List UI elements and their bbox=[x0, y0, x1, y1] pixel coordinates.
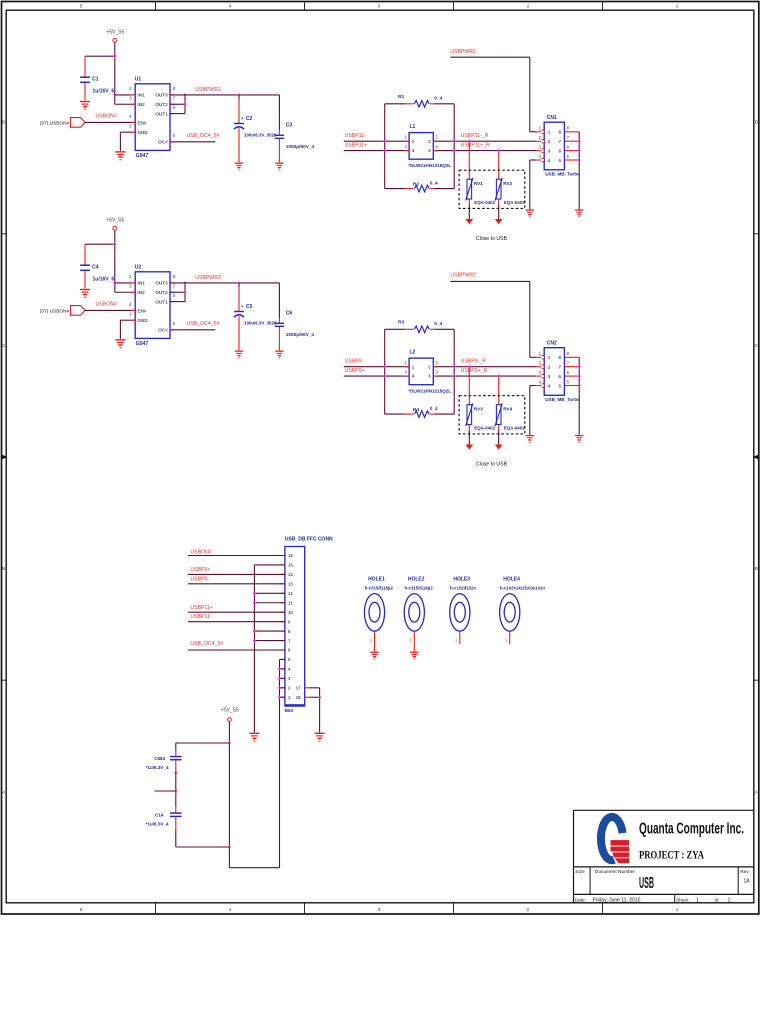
inductor L2 common-mode choke bbox=[409, 358, 433, 385]
node junction bbox=[253, 601, 256, 604]
svg-text:5: 5 bbox=[558, 383, 561, 388]
resistor R1 bbox=[385, 103, 406, 105]
svg-text:*DLW21HN1215Q2L: *DLW21HN1215Q2L bbox=[408, 163, 451, 168]
ground bbox=[575, 209, 583, 210]
svg-text:Sheet: Sheet bbox=[676, 897, 689, 903]
svg-text:3: 3 bbox=[548, 148, 551, 153]
svg-text:B: B bbox=[2, 566, 5, 571]
svg-text:6: 6 bbox=[173, 293, 176, 298]
svg-text:USBON#: USBON# bbox=[190, 550, 211, 556]
svg-text:GND: GND bbox=[137, 318, 148, 323]
node junction bbox=[278, 686, 281, 689]
node junction bbox=[228, 845, 231, 848]
red pin stubs bbox=[405, 140, 410, 142]
wire IN2 bbox=[115, 103, 135, 105]
svg-text:8: 8 bbox=[558, 130, 561, 135]
svg-text:USBP9-: USBP9- bbox=[345, 358, 364, 364]
capacitor C2 polarized bbox=[238, 95, 240, 99]
node junction bbox=[578, 365, 581, 368]
svg-text:RV4: RV4 bbox=[503, 407, 512, 412]
svg-text:*DLW21HN1215Q2L: *DLW21HN1215Q2L bbox=[408, 389, 451, 394]
svg-text:1: 1 bbox=[370, 638, 372, 642]
node junction bbox=[278, 677, 281, 680]
svg-text:10: 10 bbox=[288, 610, 293, 615]
node junction bbox=[578, 140, 581, 143]
svg-text:2: 2 bbox=[129, 274, 132, 279]
wire USBP11+ to pin 10 bbox=[188, 611, 285, 613]
svg-text:RV1: RV1 bbox=[474, 181, 483, 186]
svg-text:1: 1 bbox=[548, 130, 551, 135]
svg-text:USBON#: USBON# bbox=[96, 302, 117, 308]
capacitor C4 bbox=[84, 244, 86, 265]
svg-text:EQA-0402: EQA-0402 bbox=[474, 426, 495, 431]
svg-text:1u/16V_6: 1u/16V_6 bbox=[93, 277, 115, 283]
svg-text:EQA-0402: EQA-0402 bbox=[504, 426, 525, 431]
svg-text:11: 11 bbox=[288, 600, 293, 605]
svg-text:USBPWR1: USBPWR1 bbox=[450, 49, 476, 55]
svg-text:USB_OC4_5#: USB_OC4_5# bbox=[187, 321, 220, 327]
input port (37) USBON# (U2) bbox=[71, 306, 86, 316]
pin sockets and stubs bbox=[536, 356, 541, 358]
svg-text:Rev: Rev bbox=[740, 869, 749, 875]
title block bbox=[574, 809, 754, 811]
ground bbox=[526, 435, 534, 436]
svg-text:HOLE4: HOLE4 bbox=[503, 576, 520, 582]
svg-text:h-c102x141d102x141n: h-c102x141d102x141n bbox=[500, 586, 546, 591]
svg-text:L2: L2 bbox=[410, 350, 416, 356]
svg-text:USBP9+_R: USBP9+_R bbox=[461, 368, 488, 374]
svg-text:GND: GND bbox=[137, 130, 148, 135]
varistor RV1 bbox=[468, 141, 470, 179]
node junction bbox=[253, 629, 256, 632]
svg-text:1A: 1A bbox=[743, 878, 750, 884]
svg-text:17: 17 bbox=[296, 686, 301, 691]
resistor R3 bbox=[385, 328, 406, 330]
wire net USBPWR1 bbox=[450, 56, 529, 58]
svg-text:RV3: RV3 bbox=[474, 407, 483, 412]
svg-text:5: 5 bbox=[558, 158, 561, 163]
svg-text:1: 1 bbox=[728, 897, 731, 903]
op-amp U1 power switch G547 bbox=[135, 84, 170, 151]
svg-text:G547: G547 bbox=[136, 153, 149, 159]
node junction bbox=[497, 149, 500, 152]
node junction bbox=[383, 140, 386, 143]
svg-text:18: 18 bbox=[296, 695, 301, 700]
svg-text:8: 8 bbox=[558, 355, 561, 360]
ground bbox=[526, 209, 534, 210]
svg-text:5: 5 bbox=[173, 321, 176, 326]
wire pins 5-8 tie bbox=[578, 357, 580, 434]
resistor R4 bbox=[385, 413, 406, 415]
svg-text:G547: G547 bbox=[136, 341, 149, 347]
wire pins 17,18 to ground bbox=[309, 687, 319, 689]
node junction bbox=[578, 384, 581, 387]
svg-text:OC#: OC# bbox=[158, 140, 168, 145]
svg-text:Close to USB: Close to USB bbox=[476, 236, 508, 242]
svg-text:14: 14 bbox=[288, 572, 293, 577]
capacitor C1 bbox=[84, 56, 86, 77]
node junction bbox=[237, 93, 240, 96]
svg-text:EN#: EN# bbox=[137, 309, 147, 314]
svg-text:100u/6.3V_3528: 100u/6.3V_3528 bbox=[244, 320, 277, 325]
inductor L1 common-mode choke bbox=[409, 133, 433, 160]
wire pin4 to ground bbox=[530, 385, 536, 387]
wire USBP11- to pin 9 bbox=[188, 621, 285, 623]
svg-text:EN#: EN# bbox=[137, 121, 147, 126]
svg-text:1: 1 bbox=[410, 638, 412, 642]
svg-text:*1u/6.3V_4: *1u/6.3V_4 bbox=[146, 765, 169, 770]
svg-text:3: 3 bbox=[129, 284, 132, 289]
svg-text:8: 8 bbox=[173, 274, 176, 279]
node junction bbox=[383, 365, 386, 368]
wire pin1 bbox=[530, 356, 536, 358]
svg-text:C3: C3 bbox=[286, 123, 293, 129]
node junction bbox=[237, 281, 240, 284]
svg-text:EQA-0402: EQA-0402 bbox=[504, 200, 525, 205]
wire OUT2/OUT1 tie bbox=[184, 283, 186, 302]
svg-text:EQA-0402: EQA-0402 bbox=[474, 200, 495, 205]
wire IN2 bbox=[115, 291, 135, 293]
svg-text:OUT2: OUT2 bbox=[155, 102, 168, 107]
capacitor C684 bbox=[175, 743, 177, 751]
wire net USBPWR2 bbox=[450, 280, 529, 282]
svg-text:HOLE3: HOLE3 bbox=[453, 576, 470, 582]
svg-text:CN2: CN2 bbox=[547, 340, 557, 346]
svg-text:+: + bbox=[241, 116, 244, 121]
connector CN2 USB_MB_Turbo bbox=[544, 348, 564, 396]
wire bbox=[175, 773, 177, 807]
svg-text:0_4: 0_4 bbox=[434, 96, 442, 102]
red pin stubs bbox=[280, 555, 285, 557]
ground bbox=[115, 339, 125, 340]
svg-text:+5V_S5: +5V_S5 bbox=[221, 707, 239, 713]
svg-text:0_4: 0_4 bbox=[430, 181, 438, 187]
svg-text:+5V_S5: +5V_S5 bbox=[106, 29, 124, 35]
svg-text:5: 5 bbox=[173, 133, 176, 138]
svg-text:1: 1 bbox=[129, 124, 132, 129]
node junction bbox=[468, 140, 471, 143]
wire bbox=[85, 55, 115, 57]
svg-text:Friday, June 11, 2010: Friday, June 11, 2010 bbox=[593, 897, 641, 903]
wire EN# bbox=[85, 121, 135, 123]
svg-text:OUT1: OUT1 bbox=[155, 300, 168, 305]
resistor R2 bbox=[385, 188, 406, 190]
svg-text:B: B bbox=[755, 566, 758, 571]
svg-text:(37) USBON#: (37) USBON# bbox=[40, 308, 70, 314]
node junction bbox=[278, 667, 281, 670]
svg-text:13: 13 bbox=[288, 582, 293, 587]
svg-text:1000p/50V_4: 1000p/50V_4 bbox=[286, 144, 315, 149]
varistor RV3 bbox=[468, 367, 470, 405]
ground bbox=[235, 163, 243, 164]
svg-text:3: 3 bbox=[129, 96, 132, 101]
svg-text:C2: C2 bbox=[246, 116, 253, 122]
svg-text:HOLE1: HOLE1 bbox=[368, 576, 385, 582]
wire OC# bbox=[170, 141, 215, 143]
svg-text:of: of bbox=[714, 897, 719, 903]
svg-text:12: 12 bbox=[288, 591, 293, 596]
svg-text:PROJECT : ZYA: PROJECT : ZYA bbox=[639, 848, 704, 862]
svg-text:0_4: 0_4 bbox=[434, 321, 442, 327]
wire net USBP11+ bbox=[344, 150, 537, 152]
svg-text:USBON#: USBON# bbox=[96, 114, 117, 120]
wire pin1 bbox=[530, 131, 536, 133]
svg-text:USBPWR1: USBPWR1 bbox=[195, 87, 221, 93]
capacitor C14 bbox=[175, 806, 177, 813]
wire bbox=[114, 42, 116, 104]
svg-text:0_4: 0_4 bbox=[430, 406, 438, 412]
svg-text:HOLE2: HOLE2 bbox=[408, 576, 425, 582]
node junction bbox=[113, 55, 116, 58]
svg-text:4: 4 bbox=[129, 114, 132, 119]
svg-text:1: 1 bbox=[548, 355, 551, 360]
wire bbox=[85, 243, 115, 245]
svg-text:C684: C684 bbox=[154, 756, 165, 761]
svg-text:R4: R4 bbox=[413, 407, 419, 413]
node junction bbox=[318, 696, 321, 699]
svg-text:USBP9-_R: USBP9-_R bbox=[461, 358, 487, 364]
svg-text:C1: C1 bbox=[92, 76, 99, 82]
svg-text:Date:: Date: bbox=[575, 897, 586, 903]
svg-text:R1: R1 bbox=[398, 94, 404, 100]
svg-text:1000p/50V_4: 1000p/50V_4 bbox=[286, 332, 315, 337]
svg-text:USBP9-: USBP9- bbox=[190, 577, 209, 583]
wire bbox=[384, 104, 386, 189]
svg-text:7: 7 bbox=[558, 139, 561, 144]
wire bbox=[228, 722, 230, 868]
capacitor C3 bbox=[278, 95, 280, 130]
varistor RV2 bbox=[498, 151, 500, 180]
svg-text:OUT3: OUT3 bbox=[155, 93, 168, 98]
dashed keepout box bbox=[459, 396, 525, 434]
svg-text:(37) USBON#: (37) USBON# bbox=[40, 120, 70, 126]
input port (37) USBON# (U1) bbox=[71, 118, 86, 128]
svg-text:USB_MB_Turbo: USB_MB_Turbo bbox=[545, 172, 580, 177]
ground bbox=[575, 435, 583, 436]
svg-text:USBP11+: USBP11+ bbox=[345, 143, 368, 149]
connector CN1 USB_MB_Turbo bbox=[544, 122, 564, 170]
wire pin4 to ground bbox=[530, 159, 536, 161]
svg-text:CN1: CN1 bbox=[547, 115, 557, 121]
svg-text:2: 2 bbox=[129, 86, 132, 91]
ground bbox=[235, 351, 243, 352]
wire bbox=[453, 329, 455, 414]
wire bbox=[229, 867, 279, 869]
svg-text:6: 6 bbox=[558, 374, 561, 379]
svg-text:4: 4 bbox=[548, 383, 551, 388]
red pin stubs bbox=[131, 282, 135, 284]
svg-text:IN1: IN1 bbox=[137, 93, 145, 98]
wire IN1 bbox=[115, 282, 135, 284]
pin sockets and stubs bbox=[536, 131, 541, 133]
svg-text:USB_OC4_5#: USB_OC4_5# bbox=[187, 133, 220, 139]
svg-text:Size: Size bbox=[575, 869, 585, 875]
svg-text:USBPWR2: USBPWR2 bbox=[195, 275, 221, 281]
node junction bbox=[183, 93, 186, 96]
node junction bbox=[278, 696, 281, 699]
svg-text:OC#: OC# bbox=[158, 328, 168, 333]
svg-text:U1: U1 bbox=[135, 77, 142, 83]
svg-text:*1u/6.3V_4: *1u/6.3V_4 bbox=[146, 821, 169, 826]
node junction bbox=[453, 149, 456, 152]
node junction bbox=[383, 374, 386, 377]
svg-text:B63: B63 bbox=[285, 708, 294, 713]
svg-text:USBP11-: USBP11- bbox=[190, 614, 212, 620]
svg-text:Quanta Computer Inc.: Quanta Computer Inc. bbox=[639, 820, 744, 837]
svg-text:1: 1 bbox=[455, 638, 457, 642]
wire net USBPWR1 bbox=[170, 94, 279, 96]
op-amp U2 power switch G547 bbox=[135, 272, 170, 339]
svg-text:USBP11-_R: USBP11-_R bbox=[461, 133, 489, 139]
svg-text:OUT3: OUT3 bbox=[155, 281, 168, 286]
svg-text:USBP11-: USBP11- bbox=[345, 133, 367, 139]
node junction bbox=[453, 140, 456, 143]
svg-text:USBP9+: USBP9+ bbox=[345, 368, 365, 374]
svg-text:A: A bbox=[2, 790, 5, 795]
svg-text:USB: USB bbox=[639, 875, 654, 892]
wire IN1 bbox=[115, 94, 135, 96]
ground bbox=[275, 163, 283, 164]
wire bbox=[384, 329, 386, 414]
svg-text:3: 3 bbox=[548, 374, 551, 379]
wire net USBPWR2 bbox=[170, 282, 279, 284]
wire USBP9+ to pin 14 bbox=[188, 573, 285, 575]
svg-text:7: 7 bbox=[173, 284, 176, 289]
ground bbox=[370, 652, 378, 653]
svg-text:6: 6 bbox=[558, 148, 561, 153]
svg-text:+: + bbox=[241, 304, 244, 309]
node junction bbox=[453, 365, 456, 368]
svg-text:15: 15 bbox=[288, 563, 293, 568]
supply bus pins 5,4,3,2,1 bbox=[279, 659, 281, 867]
svg-text:1: 1 bbox=[129, 312, 132, 317]
svg-text:1: 1 bbox=[505, 638, 507, 642]
wire OUT2/OUT1 tie bbox=[184, 95, 186, 114]
wire EN# bbox=[85, 309, 135, 311]
svg-text:1: 1 bbox=[696, 897, 699, 903]
wire GND pin bbox=[120, 319, 135, 321]
ground bbox=[410, 652, 418, 653]
varistor RV4 bbox=[498, 376, 500, 405]
svg-text:RV2: RV2 bbox=[503, 181, 512, 186]
svg-text:USB_DB FFC CONN: USB_DB FFC CONN bbox=[285, 536, 333, 542]
svg-text:A: A bbox=[755, 790, 758, 795]
svg-text:100u/6.3V_3528: 100u/6.3V_3528 bbox=[244, 132, 277, 137]
svg-text:R2: R2 bbox=[413, 181, 419, 187]
svg-text:2: 2 bbox=[548, 365, 551, 370]
svg-text:h-c102d102n: h-c102d102n bbox=[450, 586, 476, 591]
svg-text:C4: C4 bbox=[92, 264, 99, 270]
node junction bbox=[497, 374, 500, 377]
wire USBP9- to pin 13 bbox=[188, 583, 285, 585]
svg-text:h-c315d118p2: h-c315d118p2 bbox=[405, 586, 434, 591]
wire net USBP11- bbox=[344, 140, 537, 142]
svg-text:Document Number: Document Number bbox=[595, 869, 636, 875]
svg-text:USB_OC4_5#: USB_OC4_5# bbox=[190, 641, 223, 647]
dashed keepout box bbox=[459, 170, 525, 208]
node junction bbox=[383, 149, 386, 152]
node junction bbox=[183, 103, 186, 106]
wire bbox=[176, 742, 230, 744]
svg-text:USBP9+: USBP9+ bbox=[190, 567, 210, 573]
svg-text:4: 4 bbox=[548, 158, 551, 163]
ground bbox=[465, 445, 473, 450]
red pin stubs bbox=[131, 94, 135, 96]
ground bbox=[249, 733, 259, 734]
wire USBON# to pin 16 bbox=[188, 555, 285, 557]
node junction bbox=[578, 149, 581, 152]
capacitor C6 bbox=[278, 283, 280, 318]
wire OC# bbox=[170, 329, 215, 331]
wire net USBP9- bbox=[344, 366, 537, 368]
wire bbox=[453, 104, 455, 189]
node junction bbox=[253, 592, 256, 595]
node junction bbox=[174, 771, 177, 774]
node junction bbox=[113, 281, 116, 284]
node junction bbox=[578, 158, 581, 161]
wire bbox=[176, 846, 230, 848]
node junction bbox=[253, 639, 256, 642]
wire pins 5-8 tie bbox=[578, 132, 580, 209]
svg-text:+5V_S5: +5V_S5 bbox=[106, 217, 124, 223]
ground bbox=[495, 219, 503, 224]
node junction bbox=[113, 93, 116, 96]
wire bbox=[114, 230, 116, 292]
svg-text:1u/16V_6: 1u/16V_6 bbox=[93, 89, 115, 95]
node junction bbox=[174, 789, 177, 792]
ground bbox=[80, 289, 90, 290]
node junction bbox=[468, 365, 471, 368]
svg-text:C5: C5 bbox=[246, 304, 253, 310]
node junction bbox=[113, 243, 116, 246]
node junction bbox=[183, 281, 186, 284]
red pin stubs bbox=[405, 366, 410, 368]
svg-text:2: 2 bbox=[548, 139, 551, 144]
svg-text:IN2: IN2 bbox=[137, 290, 145, 295]
ground bbox=[80, 101, 90, 102]
svg-text:16: 16 bbox=[288, 553, 293, 558]
svg-text:USB_MB_Turbo: USB_MB_Turbo bbox=[545, 397, 580, 402]
ground bbox=[115, 151, 125, 152]
svg-text:C6: C6 bbox=[286, 311, 293, 317]
svg-text:IN2: IN2 bbox=[137, 102, 145, 107]
svg-text:h-c315d118p2: h-c315d118p2 bbox=[365, 586, 394, 591]
wire net USBP9+ bbox=[344, 375, 537, 377]
node junction bbox=[228, 741, 231, 744]
svg-text:OUT1: OUT1 bbox=[155, 112, 168, 117]
svg-text:8: 8 bbox=[173, 86, 176, 91]
svg-text:USBP11+: USBP11+ bbox=[190, 605, 213, 611]
wire GND pin bbox=[120, 131, 135, 133]
svg-text:4: 4 bbox=[129, 302, 132, 307]
node junction bbox=[453, 374, 456, 377]
svg-text:USBP11+_R: USBP11+_R bbox=[461, 143, 490, 149]
capacitor C5 polarized bbox=[238, 283, 240, 287]
svg-text:R3: R3 bbox=[398, 320, 404, 326]
svg-text:7: 7 bbox=[558, 365, 561, 370]
node junction bbox=[183, 291, 186, 294]
svg-text:L1: L1 bbox=[410, 124, 416, 130]
Quanta logo bbox=[601, 817, 629, 863]
svg-text:Close to USB: Close to USB bbox=[476, 462, 508, 468]
svg-text:OUT2: OUT2 bbox=[155, 290, 168, 295]
ground bbox=[275, 351, 283, 352]
wire stub bbox=[154, 790, 175, 792]
ground bbox=[315, 733, 325, 734]
ground bus pins 15,12,11,8,7 bbox=[253, 565, 255, 732]
svg-text:IN1: IN1 bbox=[137, 281, 145, 286]
svg-text:USBPWR2: USBPWR2 bbox=[450, 272, 476, 278]
